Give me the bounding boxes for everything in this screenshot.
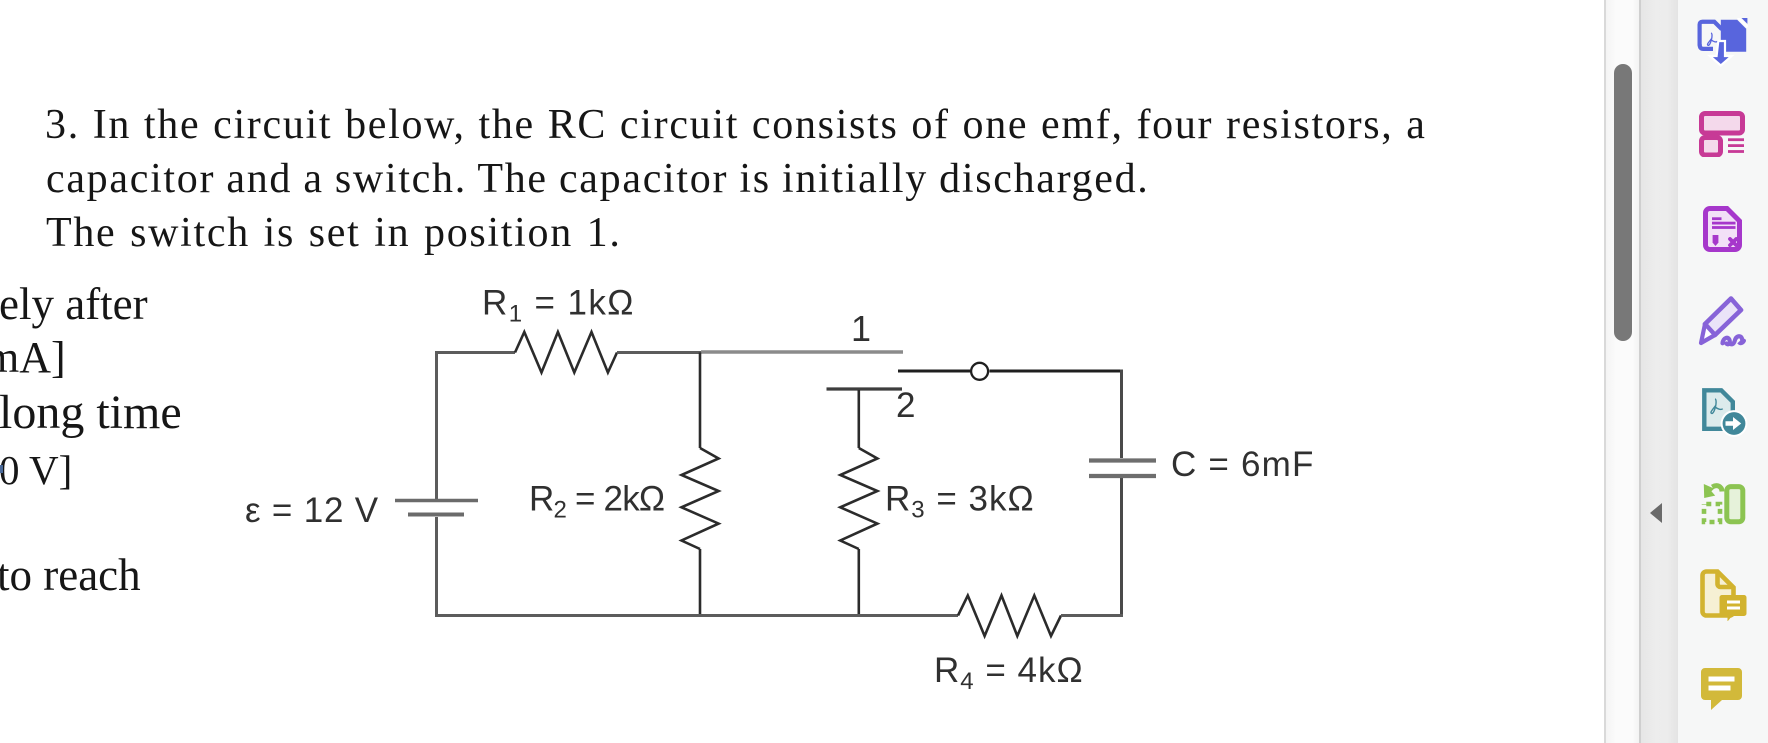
svg-text:R1 = 1kΩ: R1 = 1kΩ <box>482 284 635 328</box>
svg-text:2: 2 <box>896 386 917 425</box>
svg-text:C = 6mF: C = 6mF <box>1171 445 1315 484</box>
svg-text:R3 = 3kΩ: R3 = 3kΩ <box>885 480 1035 524</box>
svg-text:R2 = 2kΩ: R2 = 2kΩ <box>529 480 664 524</box>
svg-text:R4 = 4kΩ: R4 = 4kΩ <box>934 651 1084 695</box>
svg-text:1: 1 <box>851 308 872 349</box>
svg-text:ε = 12 V: ε = 12 V <box>245 491 379 530</box>
